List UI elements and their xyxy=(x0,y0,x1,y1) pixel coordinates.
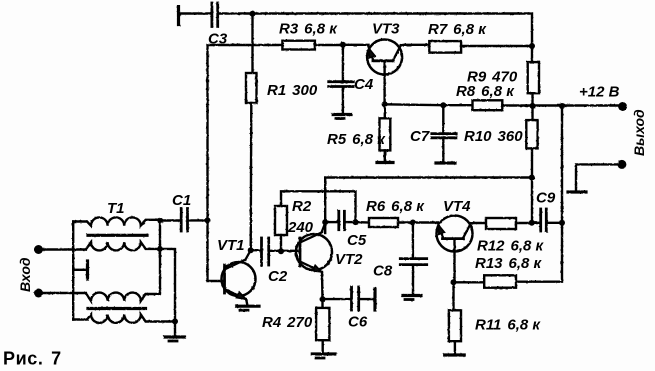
svg-text:C6: C6 xyxy=(348,314,368,331)
svg-text:C2: C2 xyxy=(268,268,288,285)
svg-text:Рис. 7: Рис. 7 xyxy=(3,349,62,369)
svg-text:VT3: VT3 xyxy=(372,21,400,38)
svg-text:R8 6,8 к: R8 6,8 к xyxy=(456,83,515,100)
svg-text:C8: C8 xyxy=(373,263,393,280)
svg-text:+12 В: +12 В xyxy=(579,84,620,101)
svg-text:R4 270: R4 270 xyxy=(262,314,313,331)
svg-text:C4: C4 xyxy=(354,76,374,93)
svg-text:VT2: VT2 xyxy=(335,251,363,268)
svg-text:R5 6,8 к: R5 6,8 к xyxy=(327,131,386,148)
svg-text:R11 6,8 к: R11 6,8 к xyxy=(475,317,541,334)
svg-text:Выход: Выход xyxy=(631,109,647,156)
svg-text:VT4: VT4 xyxy=(443,198,471,215)
svg-text:T1: T1 xyxy=(107,200,125,217)
svg-text:R2: R2 xyxy=(292,198,312,215)
svg-text:C1: C1 xyxy=(172,192,191,209)
svg-text:VT1: VT1 xyxy=(217,237,245,254)
svg-text:C9: C9 xyxy=(536,190,556,207)
svg-text:240: 240 xyxy=(287,219,314,236)
svg-text:C7: C7 xyxy=(410,128,430,145)
svg-text:R10 360: R10 360 xyxy=(464,128,523,145)
svg-text:Вход: Вход xyxy=(17,257,33,292)
svg-text:C5: C5 xyxy=(347,232,367,249)
svg-text:R13 6,8 к: R13 6,8 к xyxy=(475,255,543,272)
svg-text:R12 6,8 к: R12 6,8 к xyxy=(477,238,545,255)
svg-text:R6 6,8 к: R6 6,8 к xyxy=(366,198,425,215)
svg-text:R3 6,8 к: R3 6,8 к xyxy=(279,21,338,38)
svg-text:R7 6,8 к: R7 6,8 к xyxy=(428,21,487,38)
svg-text:R1 300: R1 300 xyxy=(267,82,318,99)
svg-text:C3: C3 xyxy=(208,31,228,48)
